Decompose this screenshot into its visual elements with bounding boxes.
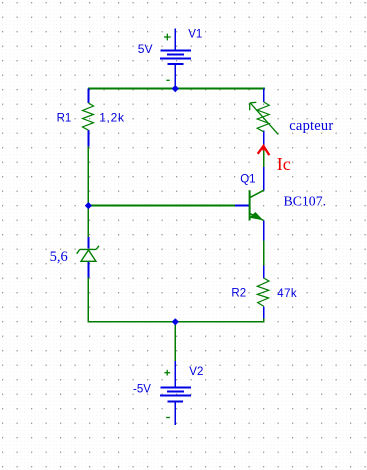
svg-text:Ic: Ic <box>277 154 291 174</box>
svg-text:-5V: -5V <box>133 384 151 396</box>
svg-text:V1: V1 <box>188 29 202 41</box>
svg-text:1,2k: 1,2k <box>99 110 125 124</box>
svg-text:R1: R1 <box>57 112 72 124</box>
svg-text:47k: 47k <box>277 288 297 300</box>
svg-text:capteur: capteur <box>289 118 333 134</box>
svg-text:5,6: 5,6 <box>50 249 68 265</box>
svg-text:5V: 5V <box>138 42 153 56</box>
svg-text:BC107.: BC107. <box>284 193 327 208</box>
svg-text:V2: V2 <box>189 366 203 378</box>
svg-text:Q1: Q1 <box>240 173 255 185</box>
svg-text:R2: R2 <box>231 288 246 300</box>
